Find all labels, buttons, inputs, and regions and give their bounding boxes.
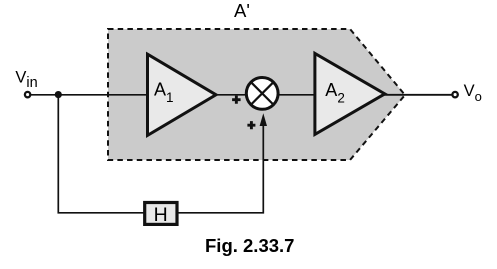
wire A1 to summer (215, 94, 246, 96)
wire A2 to Vo (384, 94, 452, 96)
svg-text:Fig. 2.33.7: Fig. 2.33.7 (205, 235, 294, 256)
input terminal circle (25, 92, 30, 97)
wire Vin to A1 (30, 94, 148, 96)
wire feedback right: H to summer arrow stem (178, 122, 263, 213)
svg-text:H: H (154, 204, 168, 226)
wire summer to A2 (279, 94, 316, 96)
wire feedback left: node down and to H (58, 95, 144, 213)
summing junction (246, 78, 278, 110)
output terminal circle (452, 92, 457, 97)
svg-text:A': A' (234, 0, 250, 21)
plus sign left input (232, 96, 241, 104)
svg-text:Vo: Vo (464, 82, 482, 104)
summer X cross (251, 82, 273, 104)
dashed feedforward block A' region (108, 29, 405, 160)
amplifier A1 (148, 54, 217, 135)
arrowhead into summer (260, 113, 267, 126)
svg-text:Vin: Vin (15, 69, 37, 92)
amplifier A2 (315, 53, 385, 134)
plus sign bottom input (247, 121, 255, 129)
node junction dot (55, 91, 62, 98)
feedback block H (145, 203, 177, 225)
